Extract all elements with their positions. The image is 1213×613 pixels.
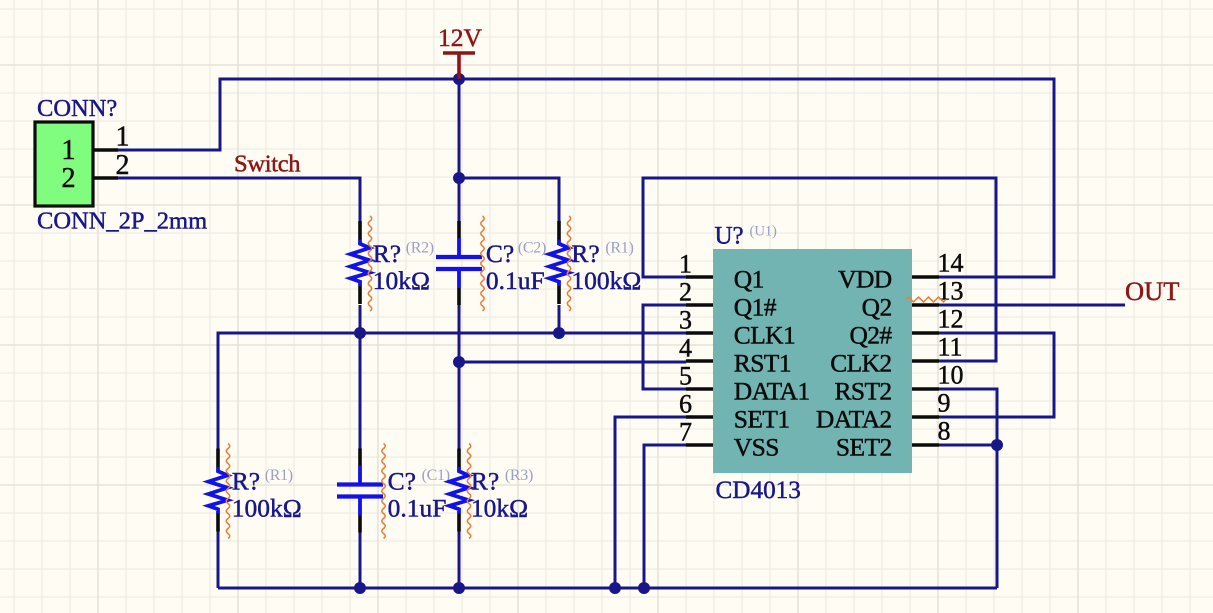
svg-text:Q1#: Q1# [734, 293, 777, 322]
svg-text:10kΩ: 10kΩ [471, 494, 528, 523]
svg-text:(C2): (C2) [518, 240, 546, 257]
svg-text:CONN?: CONN? [37, 95, 117, 122]
wire: Q1# (pin2) to DATA1 (pin5) [643, 305, 686, 389]
svg-text:11: 11 [938, 333, 963, 362]
wire: Switch net from connector pin2 to R2 top [118, 178, 360, 222]
junction dot (997,445) [991, 439, 1003, 451]
wire: 12V node vertical into C2 top [458, 79, 461, 222]
svg-text:7: 7 [679, 418, 692, 447]
wire: 12V node branch to R1 top [459, 178, 559, 222]
svg-text:RST1: RST1 [734, 349, 791, 378]
IC pin 7 (VSS) [679, 418, 779, 462]
svg-text:Switch: Switch [234, 151, 300, 178]
capacitor C1 leads [337, 444, 450, 539]
junction dot (644,588) [638, 582, 650, 594]
error squiggle for C1 [382, 444, 385, 539]
IC pin 4 (RST1) [679, 334, 791, 378]
svg-text:Q2: Q2 [862, 293, 892, 322]
resistor R3 leads [449, 444, 533, 539]
svg-text:0.1uF: 0.1uF [388, 494, 447, 523]
wire: R2 bottom to CLK1 row [359, 305, 362, 333]
svg-text:CONN_2P_2mm: CONN_2P_2mm [37, 208, 207, 235]
wire: R3 bottom to ground rail [458, 529, 461, 588]
resistor R1 upper leads [549, 216, 641, 311]
IC pin 6 (SET1) [679, 390, 789, 434]
IC pin 2 (Q1#) [679, 278, 777, 322]
wire: R1 bottom to CLK1 row [558, 305, 561, 333]
svg-text:100kΩ: 100kΩ [571, 266, 641, 295]
error squiggle for R1 lower [226, 444, 229, 539]
svg-text:12V: 12V [438, 23, 483, 52]
svg-text:10: 10 [938, 361, 964, 390]
wire: RST1 row from C2/R3 node to pin 4 [459, 361, 686, 364]
error squiggle at pin 13 [906, 297, 946, 302]
error squiggle for C2 [481, 216, 484, 311]
svg-text:R?: R? [471, 467, 499, 496]
svg-text:5: 5 [679, 362, 692, 391]
resistor R1 lower zigzag body [208, 467, 227, 514]
svg-text:100kΩ: 100kΩ [232, 494, 302, 523]
wire: bottom-left R1 to ground rail [217, 529, 220, 588]
svg-text:(R1): (R1) [265, 467, 293, 484]
wire: 12V top rail with conn pin1 riser and VDD drop [118, 79, 1054, 277]
error squiggle for R2 [368, 216, 371, 311]
svg-text:DATA2: DATA2 [816, 405, 892, 434]
IC pin 12 (Q2#) [849, 305, 963, 350]
svg-text:1: 1 [116, 122, 130, 153]
wire: RST2 (pin10) down right side to ground [939, 389, 997, 588]
svg-text:(U1): (U1) [750, 224, 777, 240]
svg-text:14: 14 [938, 249, 964, 278]
svg-text:(R3): (R3) [505, 467, 533, 484]
svg-text:CD4013: CD4013 [716, 477, 801, 504]
wire: SET2 (pin8) stub to right vertical [939, 444, 997, 447]
IC pin 9 (DATA2) [816, 389, 951, 434]
resistor R2 zigzag body [350, 240, 369, 287]
IC U1 CD4013 body [713, 249, 912, 473]
capacitor C2 plates [457, 238, 461, 288]
svg-text:OUT: OUT [1125, 276, 1179, 306]
junction dot (459,588) [453, 582, 465, 594]
junction dot (559,333) [553, 327, 565, 339]
svg-text:6: 6 [679, 390, 692, 419]
svg-text:U?: U? [715, 223, 744, 250]
svg-text:VSS: VSS [734, 433, 779, 462]
svg-text:1: 1 [679, 250, 692, 279]
wire: VSS (pin7) to ground [644, 445, 686, 588]
IC pin 8 (SET2) [836, 417, 951, 462]
IC pin 14 (VDD) [838, 249, 963, 294]
resistor R1 upper zigzag body [549, 240, 568, 287]
wire: ground bottom rail [218, 587, 997, 590]
wire: C1 bottom to ground rail [359, 529, 362, 588]
resistor R1 lower leads [208, 444, 301, 539]
resistor R3 zigzag body [449, 467, 468, 514]
wire: Q1 (pin1) up and across to CLK2 (pin11) [643, 178, 996, 361]
junction dot (459,178) [453, 172, 465, 184]
svg-text:VDD: VDD [838, 265, 892, 294]
wire: C2 bottom through RST1 node [458, 305, 461, 452]
junction dot (459,79) [453, 73, 465, 85]
svg-text:SET1: SET1 [734, 405, 790, 434]
svg-text:13: 13 [938, 277, 964, 306]
svg-text:CLK2: CLK2 [830, 349, 891, 378]
error squiggle for R1 upper [567, 216, 570, 311]
svg-text:3: 3 [679, 306, 692, 335]
connector pin 2 [93, 150, 130, 181]
svg-text:R?: R? [373, 239, 401, 268]
wire: SET1 (pin6) to ground [615, 417, 686, 588]
svg-text:DATA1: DATA1 [734, 377, 810, 406]
svg-text:Q2#: Q2# [849, 321, 892, 350]
svg-text:10kΩ: 10kΩ [373, 266, 430, 295]
resistor R2 leads [350, 216, 433, 311]
svg-text:R?: R? [232, 467, 260, 496]
IC pin 1 (Q1) [679, 250, 764, 294]
capacitor C2 leads [436, 216, 546, 311]
svg-text:(R1): (R1) [605, 240, 633, 257]
svg-text:2: 2 [679, 278, 692, 307]
svg-text:C?: C? [486, 239, 514, 268]
IC pin 11 (CLK2) [830, 333, 962, 378]
power port 12V [438, 23, 483, 79]
svg-text:2: 2 [116, 150, 130, 181]
junction dot (615,588) [609, 582, 621, 594]
svg-text:RST2: RST2 [834, 377, 891, 406]
svg-text:SET2: SET2 [836, 433, 892, 462]
svg-text:CLK1: CLK1 [734, 321, 795, 350]
svg-text:12: 12 [938, 305, 964, 334]
svg-text:2: 2 [61, 163, 75, 194]
connector CONN? body [35, 122, 93, 206]
error squiggle for R3 [467, 444, 470, 539]
svg-text:1: 1 [61, 135, 75, 166]
IC pin 13 (Q2) [862, 277, 964, 322]
IC pin 3 (CLK1) [679, 306, 795, 350]
svg-text:9: 9 [938, 389, 951, 418]
IC pin 10 (RST2) [834, 361, 963, 406]
svg-text:8: 8 [938, 417, 951, 446]
svg-text:Q1: Q1 [734, 265, 764, 294]
svg-text:C?: C? [388, 467, 416, 496]
junction dot (459,362) [453, 356, 465, 368]
connector pin 1 [93, 122, 130, 153]
wire: Q2# (pin12) to DATA2 (pin9) [939, 333, 1054, 417]
wire: CLK1 net row to pin 3 and down left side [218, 333, 686, 452]
svg-text:(R2): (R2) [406, 240, 434, 257]
capacitor C1 plates [358, 466, 362, 516]
wire: OUT net from Q2 (pin13) [939, 304, 1125, 307]
junction dot (360,588) [354, 582, 366, 594]
wire: C1 column top segment [359, 333, 362, 452]
svg-text:0.1uF: 0.1uF [486, 266, 545, 295]
svg-text:R?: R? [571, 239, 599, 268]
IC pin 5 (DATA1) [679, 362, 810, 406]
svg-text:4: 4 [679, 334, 692, 363]
junction dot (360,333) [354, 327, 366, 339]
